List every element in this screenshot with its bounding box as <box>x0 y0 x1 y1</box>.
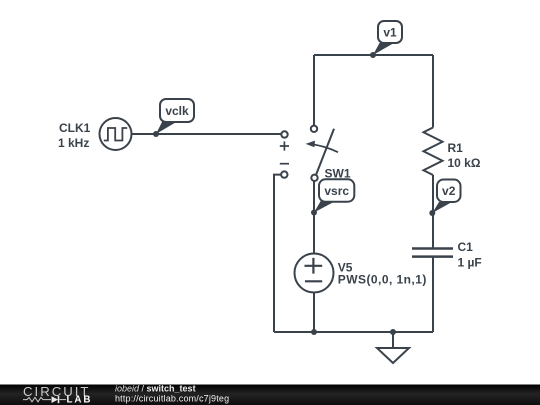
junction ground node <box>390 329 396 335</box>
wire top rail <box>314 54 433 56</box>
footer bar <box>0 385 540 405</box>
voltage source V5 <box>295 254 334 293</box>
resistor R1 <box>424 128 443 176</box>
wire switch to source V5 <box>313 181 315 254</box>
switch SW1 <box>306 126 338 181</box>
capacitor C1 <box>412 249 453 257</box>
svg-text:CLK1: CLK1 <box>59 121 91 135</box>
label CLK1 value 1 kHz <box>58 121 91 150</box>
svg-text:v2: v2 <box>442 184 456 198</box>
switch control - terminal <box>280 164 289 178</box>
svg-text:http://circuitlab.com/c7j9teg: http://circuitlab.com/c7j9teg <box>115 393 229 403</box>
junction V5 bottom <box>311 329 317 335</box>
wire minus terminal down left side <box>274 175 281 332</box>
svg-text:LAB: LAB <box>67 395 93 405</box>
node vsrc flag <box>311 179 354 215</box>
svg-text:1 µF: 1 µF <box>458 256 482 270</box>
wire resistor to capacitor <box>432 175 434 248</box>
clock source CLK1 <box>100 118 132 150</box>
svg-text:10 kΩ: 10 kΩ <box>448 156 481 170</box>
svg-text:C1: C1 <box>458 240 474 254</box>
svg-text:vsrc: vsrc <box>324 184 349 198</box>
node vclk flag <box>153 99 194 137</box>
svg-text:iobeid / switch_test: iobeid / switch_test <box>115 383 196 393</box>
svg-text:v1: v1 <box>383 25 397 39</box>
label V5 PWS <box>338 260 427 286</box>
ground <box>377 332 409 363</box>
wire top rail to resistor <box>432 55 434 128</box>
CircuitLab logo <box>23 384 92 405</box>
wire bottom rail <box>274 331 433 333</box>
svg-text:R1: R1 <box>448 141 464 155</box>
wire capacitor to bottom rail <box>432 257 434 332</box>
wire top to switch <box>313 55 315 126</box>
label C1 value 1 uF <box>458 240 482 270</box>
label R1 value 10 kOhm <box>448 141 481 170</box>
wire V5 to bottom rail <box>313 293 315 333</box>
switch control + terminal <box>280 131 289 150</box>
svg-text:PWS(0,0, 1n,1): PWS(0,0, 1n,1) <box>338 273 427 287</box>
wire clock to switch control <box>132 133 282 135</box>
node v2 flag <box>429 180 460 217</box>
svg-text:vclk: vclk <box>165 104 189 118</box>
svg-text:1 kHz: 1 kHz <box>58 136 89 150</box>
footer text <box>115 383 229 403</box>
node v1 flag <box>370 21 402 58</box>
